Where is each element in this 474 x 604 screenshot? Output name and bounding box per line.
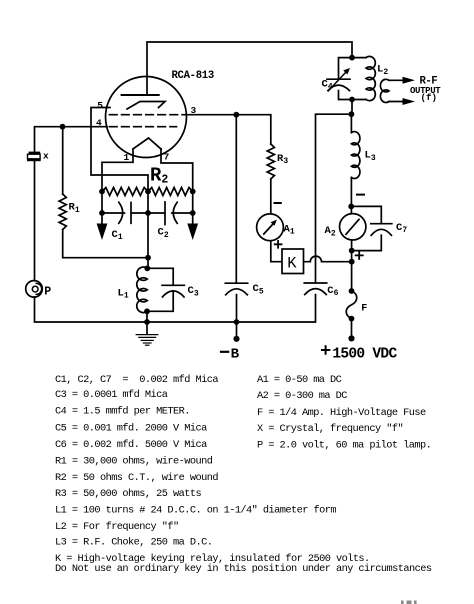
svg-text:P: P [44,285,51,298]
svg-text:L2 = For frequency "f": L2 = For frequency "f" [55,521,179,533]
svg-text:A2 = 0-300 ma DC: A2 = 0-300 ma DC [257,390,347,402]
svg-text:x: x [43,151,49,162]
svg-text:R1 = 30,000 ohms, wire-wound: R1 = 30,000 ohms, wire-wound [55,456,213,468]
svg-text:X = Crystal, frequency "f": X = Crystal, frequency "f" [257,423,403,435]
svg-text:3: 3 [191,105,197,116]
svg-text:C6 = 0.002 mfd. 5000 V Mica: C6 = 0.002 mfd. 5000 V Mica [55,439,207,451]
svg-text:RCA-813: RCA-813 [172,70,214,82]
svg-text:L1 = 100 turns # 24 D.C.C. on: L1 = 100 turns # 24 D.C.C. on 1-1/4" dia… [55,505,336,517]
svg-text:K: K [287,255,297,273]
svg-text:B: B [231,346,240,362]
svg-text:C3 = 0.0001 mfd Mica: C3 = 0.0001 mfd Mica [55,389,168,401]
svg-text:F = 1/4 Amp. High-Voltage Fuse: F = 1/4 Amp. High-Voltage Fuse [257,407,426,419]
svg-text:P = 2.0 volt, 60 ma pilot lamp: P = 2.0 volt, 60 ma pilot lamp. [257,440,431,452]
svg-text:R2 = 50 ohms C.T., wire wound: R2 = 50 ohms C.T., wire wound [55,472,218,484]
svg-text:1: 1 [124,152,130,163]
svg-text:C1, C2, C7 = 0.002 mfd Mica: C1, C2, C7 = 0.002 mfd Mica [55,374,218,386]
svg-text:F: F [361,303,367,314]
svg-text:Do Not use an ordinary key in: Do Not use an ordinary key in this posit… [55,563,432,575]
svg-text:R3 = 50,000 ohms, 25 watts: R3 = 50,000 ohms, 25 watts [55,488,201,500]
svg-text:5: 5 [97,100,103,111]
svg-text:1500 VDC: 1500 VDC [332,346,397,362]
svg-text:L3 = R.F. Choke, 250 ma D.C.: L3 = R.F. Choke, 250 ma D.C. [55,537,212,549]
svg-text:C5 = 0.001 mfd. 2000 V Mica: C5 = 0.001 mfd. 2000 V Mica [55,422,207,434]
svg-text:7: 7 [164,152,170,163]
svg-text:A1 = 0-50 ma DC: A1 = 0-50 ma DC [257,374,342,386]
svg-text:4: 4 [96,118,102,129]
svg-text:C4 = 1.5 mmfd per METER.: C4 = 1.5 mmfd per METER. [55,406,190,418]
svg-text:(f): (f) [421,92,438,103]
